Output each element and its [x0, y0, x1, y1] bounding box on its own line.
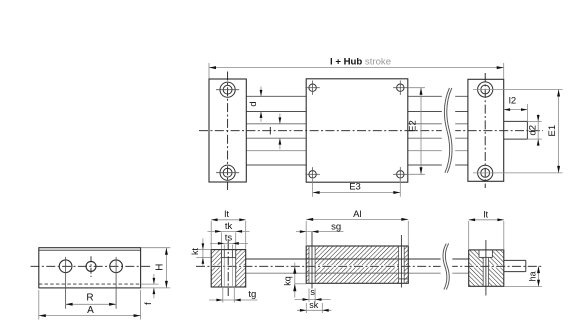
- right bearing block notch: [479, 250, 492, 258]
- dimension R: [66, 303, 117, 306]
- nut block left groove centerline: [311, 232, 313, 289]
- svg-text:Al: Al: [353, 209, 361, 220]
- svg-text:lt: lt: [483, 209, 488, 220]
- dimension spindle core: [279, 114, 282, 150]
- front hole left: [59, 260, 72, 273]
- label d: [248, 101, 259, 106]
- label d2: [527, 125, 538, 136]
- svg-text:tg: tg: [248, 289, 256, 300]
- left bearing block slot walls: [222, 250, 236, 287]
- dimension kq: [293, 263, 306, 298]
- left bearing block inner slot lines: [224, 250, 232, 287]
- carriage hole bottom-right: [393, 167, 407, 181]
- left block hole centerline: [227, 72, 229, 191]
- front hole right: [110, 260, 123, 273]
- dimension d: [260, 87, 263, 122]
- carriage hole top-right: [393, 81, 407, 95]
- label f: [143, 302, 153, 305]
- label E2: [408, 120, 419, 132]
- rails left segment: [246, 96, 306, 165]
- label E1: [547, 125, 558, 137]
- dimension l + Hub stroke: [209, 63, 504, 79]
- rails right segment: [408, 96, 468, 165]
- svg-text:E3: E3: [349, 181, 361, 192]
- left block bottom hole: [216, 165, 239, 180]
- dimension ha: [505, 266, 542, 286]
- front block top double line: [39, 249, 141, 251]
- dimension sk: [297, 303, 332, 313]
- break symbol top view: [442, 87, 455, 174]
- right bearing block slot centerline: [485, 240, 487, 296]
- dimension lt left: [211, 218, 246, 248]
- svg-text:kq: kq: [283, 276, 293, 286]
- dimension f: [141, 274, 159, 298]
- svg-text:l2: l2: [509, 96, 516, 107]
- dimension lt right: [469, 218, 504, 249]
- right bearing block outline: [469, 250, 504, 286]
- svg-text:kt: kt: [190, 248, 200, 256]
- output shaft stub: [504, 260, 526, 271]
- dimension H: [141, 248, 170, 288]
- dimension tg: [209, 288, 258, 303]
- svg-text:d: d: [248, 101, 259, 106]
- svg-text:ts: ts: [225, 232, 233, 243]
- svg-text:sg: sg: [331, 221, 341, 232]
- label ha: [528, 271, 538, 281]
- left end block: [209, 79, 246, 182]
- dimension l2: [504, 104, 528, 121]
- svg-text:H: H: [154, 264, 165, 271]
- carriage block: [306, 79, 408, 182]
- spindle centerline: [196, 265, 542, 267]
- right end block: [468, 79, 504, 181]
- nut block hatch: [306, 246, 408, 283]
- break symbol bottom view: [441, 243, 453, 290]
- nut block left groove walls: [309, 246, 315, 283]
- svg-text:d2: d2: [527, 125, 538, 136]
- svg-text:l + Hub stroke: l + Hub stroke: [330, 57, 391, 68]
- nut block right groove walls: [399, 246, 405, 283]
- right block hole centerline: [484, 73, 486, 188]
- dimension A: [39, 290, 141, 320]
- dimension d2: [527, 114, 541, 146]
- left bearing block hatch: [211, 250, 246, 287]
- left bearing block slot centerline: [227, 241, 229, 297]
- front hole middle axis: [90, 256, 92, 277]
- shaft stub top view: [504, 121, 528, 139]
- front hole middle: [86, 261, 96, 271]
- spindle shaft segment 2: [452, 259, 468, 273]
- right block top hole: [478, 82, 493, 97]
- svg-text:R: R: [86, 293, 93, 304]
- svg-text:tk: tk: [225, 221, 233, 232]
- dimension E1: [473, 90, 563, 173]
- svg-text:E2: E2: [408, 120, 419, 132]
- label kq: [283, 276, 293, 286]
- dimension Al: [306, 218, 408, 245]
- carriage hole top-left: [305, 81, 319, 95]
- top view horizontal centerline: [199, 130, 543, 132]
- label H: [154, 264, 165, 271]
- front hole right axis: [115, 257, 117, 309]
- dimension sg: [296, 230, 344, 233]
- front hole left axis: [65, 257, 67, 309]
- svg-text:E1: E1: [547, 125, 558, 137]
- right bearing block hatch: [469, 250, 504, 286]
- left block top hole: [216, 82, 239, 97]
- dimension tk: [208, 230, 250, 249]
- nut block step line: [399, 278, 409, 280]
- dimension s: [295, 289, 331, 303]
- nut block right groove centerline: [400, 235, 402, 288]
- right bearing block slot walls: [483, 257, 488, 286]
- svg-text:sk: sk: [309, 300, 319, 310]
- svg-text:lt: lt: [224, 209, 229, 220]
- center tick: [269, 127, 271, 135]
- svg-text:ha: ha: [528, 271, 538, 281]
- front block centerline: [31, 265, 153, 267]
- front block outline: [39, 248, 141, 288]
- label kt: [190, 248, 200, 256]
- front block dashed line: [39, 283, 141, 285]
- spindle shaft segment 1: [246, 259, 442, 273]
- dimension kt: [196, 239, 210, 267]
- nut block outline: [306, 246, 408, 283]
- dimension E3: [313, 178, 401, 197]
- left bearing block outline: [211, 250, 246, 287]
- right block bottom hole: [478, 165, 493, 180]
- svg-text:A: A: [87, 305, 94, 316]
- carriage hole bottom-left: [305, 167, 319, 181]
- nut block shaft lines: [306, 259, 408, 273]
- dimension E2: [408, 88, 425, 175]
- dimension ts: [210, 242, 248, 249]
- left bearing block pocket bottom: [222, 257, 236, 259]
- svg-text:s: s: [310, 287, 315, 297]
